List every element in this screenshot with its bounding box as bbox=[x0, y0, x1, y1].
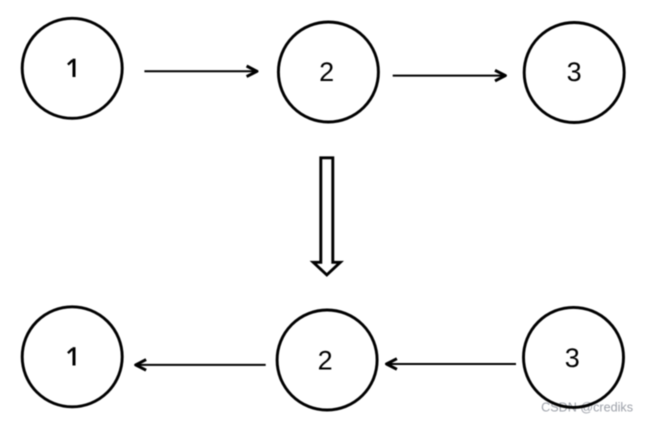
svg-text:2: 2 bbox=[319, 57, 334, 87]
svg-text:3: 3 bbox=[565, 343, 580, 373]
svg-text:3: 3 bbox=[567, 57, 582, 87]
svg-text:2: 2 bbox=[318, 346, 333, 376]
